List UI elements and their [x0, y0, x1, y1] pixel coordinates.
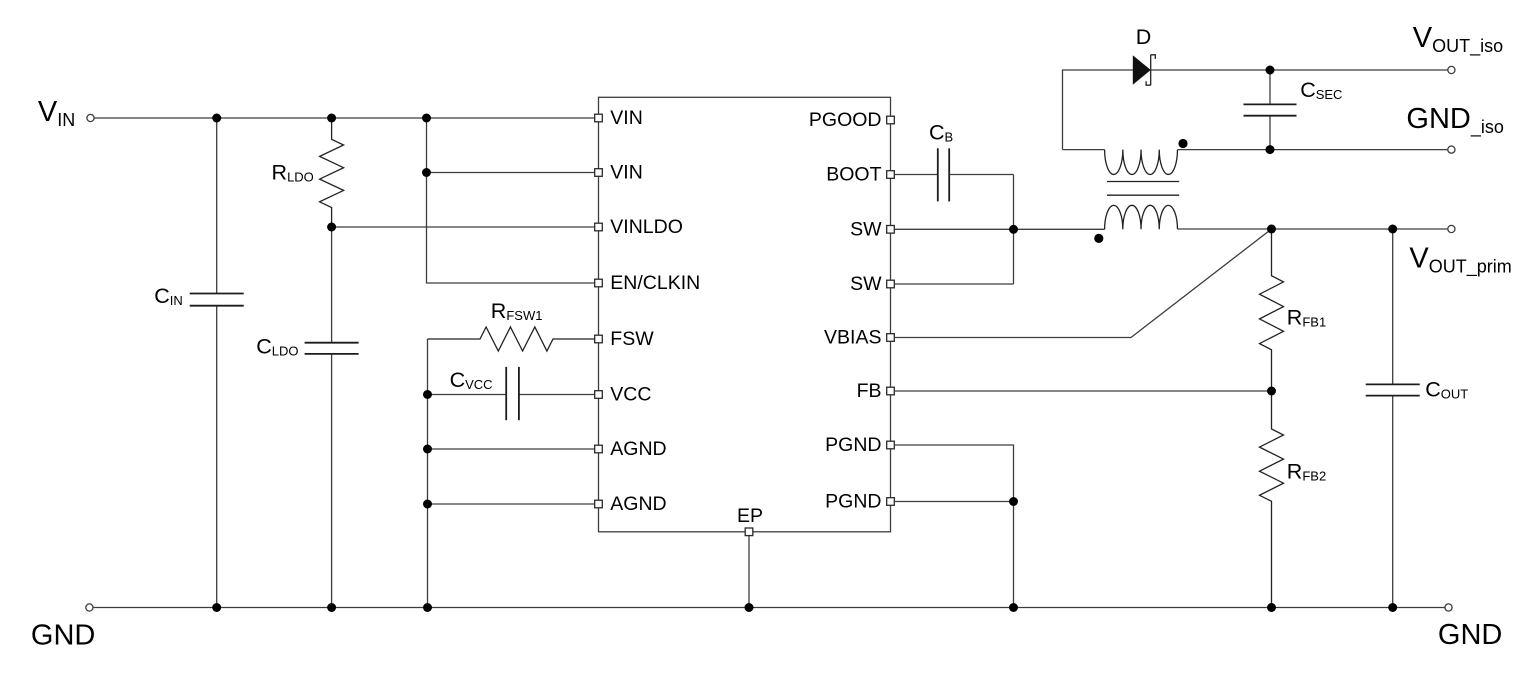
capacitor CIN [190, 294, 244, 306]
capacitor CLDO [305, 343, 359, 354]
wire BOOT left [894, 174, 938, 176]
svg-text:PGND: PGND [825, 434, 881, 456]
svg-text:PGOOD: PGOOD [809, 109, 882, 131]
junction GND-PGND [1009, 603, 1018, 612]
junction VIN-x426 [422, 114, 431, 123]
wire GND rail [93, 607, 1445, 609]
junction VIN-CIN [212, 114, 221, 123]
pin SW2 [887, 280, 895, 288]
junction AGND1 [423, 445, 432, 454]
transformer T1 primary winding [1105, 205, 1178, 229]
svg-text:FSW: FSW [610, 328, 654, 350]
junction VOUT_prim-COUT [1388, 225, 1397, 234]
op-amp U1 IC body [599, 97, 891, 532]
wire VIN rail [94, 117, 595, 119]
wire VBIAS [894, 229, 1271, 338]
svg-text:EP: EP [737, 505, 763, 527]
capacitor CVCC [506, 367, 519, 420]
transformer T1 secondary winding [1105, 150, 1178, 175]
junction AGND2 [423, 500, 432, 509]
transformer T1 secondary polarity dot [1178, 139, 1187, 148]
svg-text:D: D [1136, 25, 1152, 49]
junction SW-BOOT [1009, 225, 1018, 234]
resistor RFB1 [1260, 229, 1284, 391]
junction FB [1267, 387, 1276, 396]
wire AGND2 [428, 503, 595, 505]
pin FB [887, 387, 895, 395]
svg-text:PGND: PGND [825, 491, 881, 513]
pin VINLDO [595, 223, 603, 231]
wire VCC right [519, 394, 595, 396]
terminal VOUT_prim [1448, 225, 1455, 232]
pin EP [745, 528, 753, 536]
junction VCC [423, 390, 432, 399]
terminal GND right [1445, 604, 1452, 611]
transformer T1 core [1107, 182, 1179, 196]
wire BOOT right [949, 174, 1013, 176]
svg-text:GND: GND [31, 619, 95, 651]
pin AGND2 [595, 500, 603, 508]
wire PGND2 [894, 501, 1013, 503]
junction VIN2 [422, 168, 431, 177]
svg-text:BOOT: BOOT [826, 164, 881, 186]
junction GND-COUT [1388, 603, 1397, 612]
pin SW1 [887, 226, 895, 234]
wire vertical x426 VIN to EN [427, 118, 595, 283]
junction PGND2 [1009, 497, 1018, 506]
junction GND-RFB2 [1267, 603, 1276, 612]
junction VINLDO [327, 223, 336, 232]
svg-text:AGND: AGND [610, 438, 666, 460]
pin PGOOD [887, 116, 895, 124]
pin BOOT [887, 171, 895, 179]
wire VCC left [428, 394, 507, 396]
wire vertical x427 FSW to GND [427, 339, 429, 608]
pin PGND1 [887, 441, 895, 449]
wire FB [894, 390, 1271, 392]
wire VOUT_iso rail [1151, 69, 1448, 71]
terminal VIN [87, 114, 94, 121]
terminal GND_iso [1448, 146, 1455, 153]
wire secondary left vertical [1063, 70, 1133, 150]
pin VCC [595, 391, 603, 399]
wire CIN vertical bottom [216, 306, 218, 608]
pin VBIAS [887, 334, 895, 342]
svg-text:VINLDO: VINLDO [610, 216, 683, 238]
junction GND-CLDO [327, 603, 336, 612]
junction GND-x427 [423, 603, 432, 612]
wire GND_iso rail [1178, 149, 1448, 151]
pin FSW [595, 335, 603, 343]
resistor RLDO [320, 118, 344, 227]
junction VIN-RLDO [327, 114, 336, 123]
wire COUT top [1392, 229, 1394, 384]
svg-text:FB: FB [857, 380, 882, 402]
wire CLDO vertical top [331, 227, 333, 343]
pin EN/CLKIN [595, 279, 603, 287]
wire VOUT_prim rail [1178, 228, 1448, 230]
svg-text:SW: SW [850, 273, 882, 295]
resistor RFSW1 [428, 327, 595, 351]
terminal GND left [86, 604, 93, 611]
wire COUT bottom [1392, 396, 1394, 608]
svg-text:SW: SW [850, 219, 882, 241]
svg-text:VIN: VIN [610, 162, 643, 184]
diode D [1133, 55, 1156, 85]
pin VIN1 [595, 114, 603, 122]
capacitor CSEC [1244, 104, 1297, 115]
wire SW1 [894, 228, 1104, 230]
junction VOUT_iso-CSEC [1266, 66, 1275, 75]
wire VINLDO [332, 226, 595, 228]
wire BOOT-SW vertical [1013, 175, 1015, 285]
terminal VOUT_iso [1448, 66, 1455, 73]
junction GND-CIN [212, 603, 221, 612]
svg-text:GND: GND [1438, 619, 1502, 651]
wire CLDO vertical bottom [331, 354, 333, 608]
svg-text:VBIAS: VBIAS [824, 327, 881, 349]
capacitor CB [938, 148, 949, 201]
wire secondary left horizontal [1063, 149, 1105, 151]
svg-text:EN/CLKIN: EN/CLKIN [610, 272, 700, 294]
pin AGND1 [595, 445, 603, 453]
wire CSEC top [1269, 70, 1271, 104]
wire EP [748, 536, 750, 608]
svg-text:VIN: VIN [610, 107, 643, 129]
junction GND-EP [745, 603, 754, 612]
svg-text:AGND: AGND [610, 493, 666, 515]
wire AGND1 [428, 448, 595, 450]
junction VOUT_prim-RFB1 [1267, 225, 1276, 234]
wire VIN2 [427, 172, 595, 174]
pin PGND2 [887, 498, 895, 506]
wire SW2 [894, 283, 1013, 285]
junction GND_iso-CSEC [1266, 145, 1275, 154]
capacitor COUT [1366, 384, 1420, 395]
wire PGND1 [894, 445, 1013, 608]
svg-text:VCC: VCC [610, 384, 651, 406]
wire CSEC bottom [1269, 116, 1271, 150]
resistor RFB2 [1260, 391, 1284, 608]
wire CIN vertical top [216, 118, 218, 294]
transformer T1 primary polarity dot [1094, 234, 1103, 243]
pin VIN2 [595, 169, 603, 177]
